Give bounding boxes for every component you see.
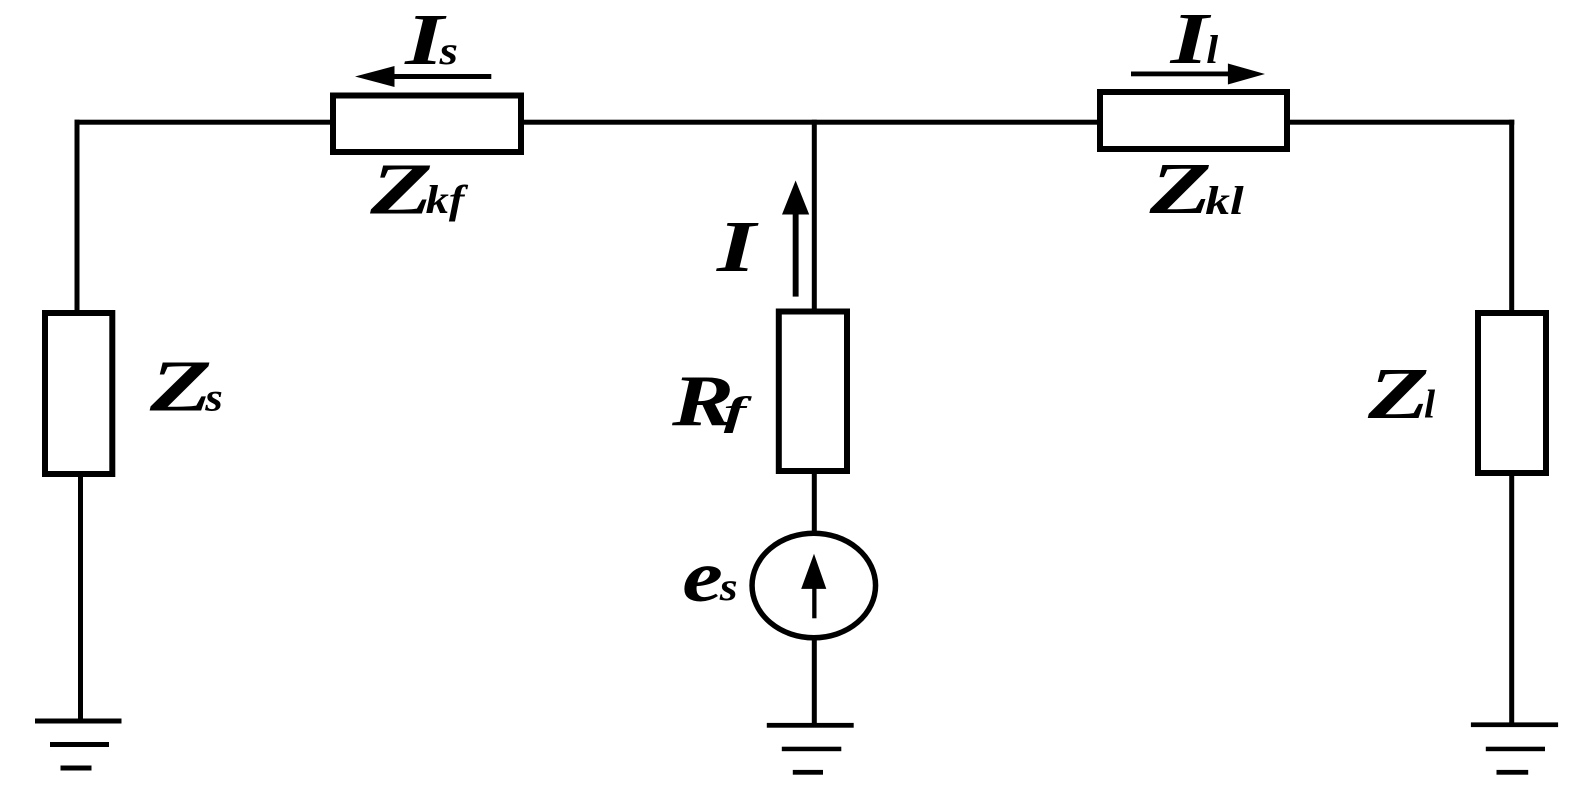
svg-text:s: s	[438, 29, 458, 74]
wire left vertical lower	[78, 475, 83, 723]
svg-text:Z: Z	[369, 149, 433, 229]
arrow Il	[1131, 72, 1229, 77]
svg-text:kf: kf	[426, 178, 470, 222]
svg-text:e: e	[682, 536, 723, 617]
svg-text:s: s	[719, 566, 738, 610]
resistor Zkf box	[333, 96, 521, 153]
wire middle vertical lower	[812, 637, 817, 725]
ground left	[35, 719, 122, 724]
arrow Is	[393, 74, 491, 79]
source es circle	[752, 533, 876, 638]
ground right	[1471, 722, 1558, 727]
wire middle vertical mid	[812, 473, 817, 534]
ground middle	[767, 723, 854, 728]
svg-text:I: I	[716, 206, 759, 287]
wire right vertical lower	[1509, 475, 1514, 725]
resistor Zkl box	[1100, 92, 1287, 149]
wire left vertical upper	[75, 120, 80, 313]
svg-text:Z: Z	[1367, 353, 1429, 434]
svg-text:s: s	[204, 376, 223, 420]
svg-text:kl: kl	[1205, 178, 1244, 223]
wire top bus	[75, 120, 1515, 125]
svg-text:Z: Z	[1148, 149, 1211, 230]
resistor Zs box	[45, 313, 112, 474]
svg-text:I: I	[1169, 0, 1211, 79]
source es arrow	[812, 588, 816, 618]
resistor Zl box	[1478, 313, 1546, 473]
svg-text:l: l	[1206, 27, 1218, 71]
svg-text:l: l	[1424, 382, 1436, 427]
arrow I	[793, 214, 799, 297]
svg-text:Z: Z	[149, 346, 212, 427]
resistor Rf box	[779, 312, 847, 472]
wire middle vertical upper	[812, 120, 817, 312]
wire right vertical upper	[1509, 120, 1514, 314]
